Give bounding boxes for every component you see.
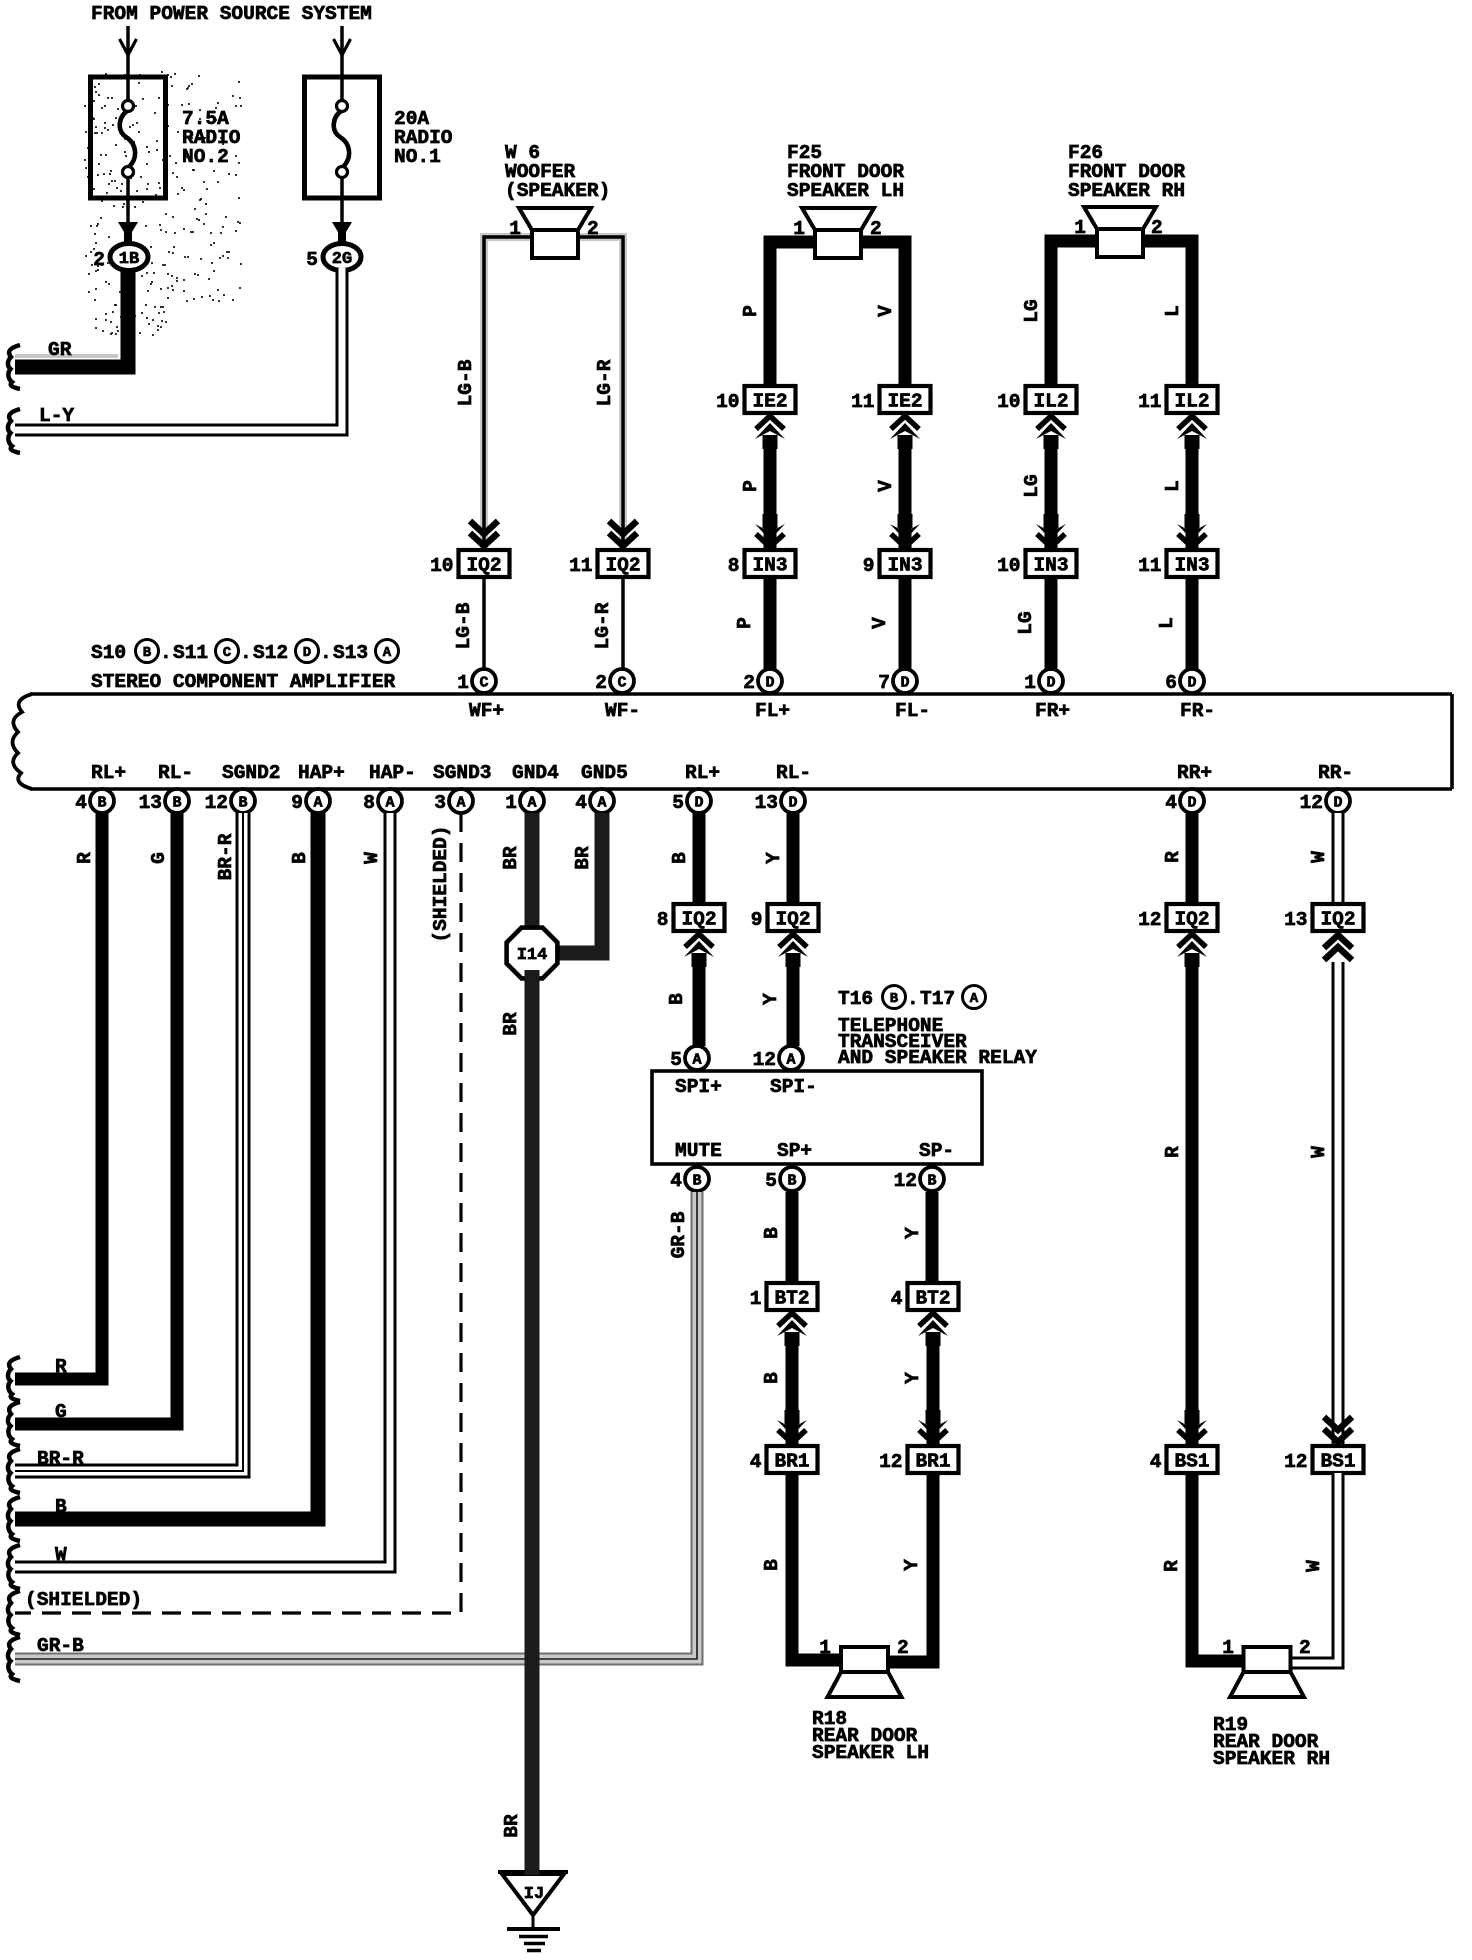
wire R from 12 IQ2 to 4 BS1 [1162,956,1192,1444]
arrow out of 10 IE2 [755,416,785,449]
svg-text:P: P [740,305,762,317]
connector 10 IN3 [997,550,1076,577]
svg-text:4: 4 [1150,1451,1162,1473]
pin 5(B) SP+ [765,1140,812,1192]
svg-text:5: 5 [670,1049,682,1071]
svg-text:SP-: SP- [919,1140,954,1162]
pin 4(B) RL+ [75,762,126,814]
connector 9 IQ2 [751,904,819,931]
svg-text:D: D [694,795,703,812]
svg-text:10: 10 [716,391,739,413]
svg-text:FL-: FL- [895,700,930,722]
wire LG-B to amp WF+ [453,577,484,670]
svg-text:IQ2: IQ2 [466,555,501,577]
svg-text:2: 2 [870,218,882,240]
svg-text:12: 12 [879,1451,902,1473]
arrow out of 1 BT2 [777,1313,807,1346]
svg-text:4: 4 [75,792,87,814]
svg-text:IN3: IN3 [1174,555,1209,577]
svg-text:RL+: RL+ [91,762,126,784]
fuse 20A RADIO NO.1 [305,26,453,245]
pin 12(D) RR- [1300,762,1354,814]
connector 8 IQ2 [657,904,725,931]
stereo component amplifier box [13,694,1453,789]
svg-text:2: 2 [1151,217,1163,239]
svg-text:2G: 2G [332,250,352,269]
svg-text:D: D [765,675,774,692]
svg-text:S10: S10 [91,642,126,664]
svg-text:BT2: BT2 [915,1288,950,1310]
svg-text:LG-B: LG-B [453,602,475,649]
svg-text:G: G [55,1401,67,1423]
svg-text:BR-R: BR-R [37,1448,84,1470]
svg-text:SPEAKER RH: SPEAKER RH [1213,1748,1330,1770]
arrow into 9 IN3 [890,514,920,547]
pin 1(A) GND4 [505,762,559,814]
label W 6 WOOFER (SPEAKER) [505,142,610,202]
svg-text:IQ2: IQ2 [1320,909,1355,931]
svg-text:BR: BR [500,1012,522,1036]
svg-text:11: 11 [1138,555,1161,577]
wire B from 4 BR1 to R18 pin1 [761,1473,848,1660]
pin 2(D) FL+ [743,669,790,722]
wire B from 1 BT2 to 4 BR1 [761,1335,792,1444]
svg-text:V: V [875,480,897,492]
svg-text:IN3: IN3 [1033,555,1068,577]
svg-text:8: 8 [657,909,669,931]
arrow out of 13 IQ2 [1324,935,1352,960]
svg-text:D: D [1187,795,1196,812]
arrow into 10 IQ2 [470,521,498,546]
svg-text:4: 4 [750,1451,762,1473]
label T16(B),T17(A) [838,986,986,1011]
svg-text:C: C [479,675,488,692]
connector 4 BR1 [750,1446,818,1473]
svg-text:B: B [761,1559,783,1571]
connector 11 IN3 [1138,550,1217,577]
svg-text:GR: GR [48,339,72,361]
svg-text:WF-: WF- [605,700,640,722]
svg-text:B: B [172,795,181,812]
wire BR from splice I14 to ground [500,970,532,1875]
svg-text:1B: 1B [119,250,139,269]
svg-text:1: 1 [1024,672,1036,694]
wire R from 4(D) to 12 IQ2 [1162,813,1192,904]
svg-text:A: A [692,1052,701,1069]
pin 12(B) SP- [894,1140,955,1192]
connector 12 IQ2 [1138,904,1217,931]
pin 12(B) SGND2 [205,762,281,814]
svg-text:RL+: RL+ [685,762,720,784]
svg-text:IJ: IJ [524,1885,544,1904]
arrow into 11 IN3 [1177,514,1207,547]
connector 8 IN3 [728,550,796,577]
wire Y from 12 BR1 to R18 pin2 [882,1473,933,1662]
svg-text:IL2: IL2 [1174,391,1209,413]
wire B from SP+ to 1 BT2 [761,1192,792,1283]
svg-text:13: 13 [755,792,778,814]
wire B from HAP+ to left edge [15,813,318,1519]
svg-text:W: W [55,1544,67,1566]
svg-text:1: 1 [1074,217,1086,239]
svg-text:6: 6 [1165,672,1177,694]
arrow into 12 BS1 [1324,1417,1352,1442]
svg-text:SGND3: SGND3 [433,762,492,784]
svg-text:RR-: RR- [1318,762,1353,784]
wire Y from SP- to 4 BT2 [902,1192,932,1283]
svg-text:WF+: WF+ [469,700,504,722]
svg-text:12: 12 [205,792,228,814]
wire Y from 9 IQ2 to 12(A) [760,956,793,1046]
connector 12 BR1 [879,1446,958,1473]
wire GR-B from MUTE to left edge [15,1192,697,1659]
svg-text:L: L [1156,617,1178,629]
svg-text:A: A [456,795,465,812]
svg-text:1: 1 [793,218,805,240]
speaker symbol R19 [1222,1637,1310,1697]
svg-text:AND SPEAKER RELAY: AND SPEAKER RELAY [838,1047,1037,1069]
continuation bracket GR [8,345,20,389]
svg-text:B: B [761,1227,783,1239]
svg-text:B: B [927,1173,936,1190]
svg-text:B: B [692,1173,701,1190]
arrow out of 4 BT2 [918,1313,948,1346]
svg-text:HAP+: HAP+ [298,762,345,784]
stipple shading around fuse RADIO NO.2 [84,71,242,336]
svg-text:D: D [788,795,797,812]
svg-text:12: 12 [1300,792,1323,814]
svg-text:B: B [143,645,152,661]
svg-text:LG: LG [1015,611,1037,634]
svg-text:P: P [740,480,762,492]
svg-text:IQ2: IQ2 [775,909,810,931]
svg-text:9: 9 [863,555,875,577]
svg-text:IE2: IE2 [752,391,787,413]
svg-text:LG-R: LG-R [592,602,614,649]
continuation bracket BR-R [8,1449,20,1493]
wire B from 8 IQ2 to 5(A) [666,956,699,1046]
ground IJ [498,1872,568,1951]
svg-text:9: 9 [751,909,763,931]
svg-text:.: . [907,988,919,1010]
pin 1(D) FR+ [1024,669,1070,722]
svg-text:SPI-: SPI- [770,1076,817,1098]
svg-text:IN3: IN3 [752,555,787,577]
connector 4 BT2 [891,1283,959,1310]
pin 8(A) HAP- [363,762,416,814]
title FROM POWER SOURCE SYSTEM [91,3,372,25]
svg-text:T17: T17 [920,988,955,1010]
svg-text:LG-B: LG-B [455,359,477,406]
svg-text:7: 7 [878,672,890,694]
svg-text:.: . [160,642,172,664]
wire LG-B woofer pin1 (thin) [455,237,534,548]
svg-text:R: R [1162,851,1184,863]
svg-text:D: D [1187,675,1196,692]
svg-text:L-Y: L-Y [39,405,74,427]
speaker symbol F25 [793,208,881,258]
pin 4(D) RR+ [1165,762,1212,814]
svg-text:SPEAKER LH: SPEAKER LH [812,1742,929,1764]
svg-text:R: R [1161,1560,1183,1572]
svg-text:11: 11 [569,555,592,577]
speaker symbol R18 [819,1637,908,1697]
svg-text:S11: S11 [173,642,208,664]
svg-text:C: C [617,675,626,692]
svg-text:NO.2: NO.2 [182,146,229,168]
svg-text:.: . [320,642,332,664]
svg-text:BR: BR [500,846,522,870]
wire LG-R woofer pin2 (thin) [576,237,623,548]
svg-text:W: W [1308,851,1330,863]
arrow into 4 BS1 [1177,1410,1207,1443]
wire LG between IL2 and IN3 [1021,438,1051,548]
svg-text:IQ2: IQ2 [605,555,640,577]
svg-text:FR+: FR+ [1035,700,1070,722]
continuation bracket G [8,1402,20,1446]
wire LG speaker pin1 [1021,241,1102,412]
svg-text:2: 2 [595,672,607,694]
svg-text:BS1: BS1 [1320,1451,1355,1473]
svg-text:T16: T16 [838,988,873,1010]
svg-text:SP+: SP+ [777,1140,812,1162]
svg-text:12: 12 [1284,1451,1307,1473]
svg-text:D: D [1333,795,1342,812]
svg-text:1: 1 [505,792,517,814]
connector 11 IL2 [1138,386,1217,413]
svg-text:(SHIELDED): (SHIELDED) [25,1589,142,1611]
svg-text:STEREO COMPONENT AMPLIFIER: STEREO COMPONENT AMPLIFIER [91,671,396,693]
svg-text:1: 1 [819,1637,831,1659]
pin 12(A) SPI- [753,1046,817,1098]
svg-text:4: 4 [670,1170,682,1192]
svg-text:4: 4 [1165,792,1177,814]
svg-text:3: 3 [434,792,446,814]
arrow into 12 BR1 [918,1410,948,1443]
connector 11 IE2 [851,386,930,413]
continuation bracket R [8,1357,20,1401]
splice I14 [507,928,558,979]
svg-text:9: 9 [291,792,303,814]
wire L speaker pin2 [1138,241,1192,412]
svg-text:5: 5 [765,1170,777,1192]
svg-text:1: 1 [1222,1637,1234,1659]
svg-text:D: D [1046,675,1055,692]
svg-text:C: C [223,645,232,661]
svg-text:S13: S13 [333,642,368,664]
svg-text:IL2: IL2 [1033,391,1068,413]
svg-text:8: 8 [363,792,375,814]
svg-text:W: W [1303,1560,1325,1572]
svg-text:BR1: BR1 [915,1451,950,1473]
svg-text:2: 2 [1299,1637,1311,1659]
svg-text:10: 10 [430,555,453,577]
svg-text:2: 2 [93,249,105,271]
svg-text:RL-: RL- [158,762,193,784]
connector 1 BT2 [750,1283,818,1310]
svg-text:SPEAKER LH: SPEAKER LH [787,180,904,202]
svg-text:W: W [361,852,383,864]
svg-text:IE2: IE2 [887,391,922,413]
connector 9 IN3 [863,550,931,577]
svg-text:B: B [289,852,311,864]
svg-text:D: D [900,675,909,692]
continuation bracket W [8,1545,20,1589]
svg-text:A: A [313,795,322,812]
label R18 REAR DOOR SPEAKER LH [812,1708,929,1764]
wire V speaker pin2 [856,242,905,412]
svg-text:Y: Y [763,852,785,864]
wire L between IL2 and IN3 [1162,438,1192,548]
svg-text:Y: Y [902,1372,924,1384]
svg-text:11: 11 [1138,391,1161,413]
svg-text:4: 4 [575,792,587,814]
svg-text:RL-: RL- [776,762,811,784]
svg-text:B: B [787,1173,796,1190]
svg-text:4: 4 [891,1288,903,1310]
connector 11 IQ2 [569,550,648,577]
svg-text:A: A [527,795,536,812]
svg-text:5: 5 [672,792,684,814]
svg-text:Y: Y [760,993,782,1005]
svg-text:B: B [761,1372,783,1384]
svg-text:1: 1 [457,672,469,694]
connector 10 IL2 [997,386,1076,413]
connector 5(2G) [306,244,361,272]
label F26 FRONT DOOR SPEAKER RH [1068,142,1185,202]
svg-text:BR: BR [572,846,594,870]
svg-text:FR-: FR- [1180,700,1215,722]
svg-text:.: . [240,642,252,664]
arrow out of 11 IL2 [1177,416,1207,449]
svg-text:BR1: BR1 [774,1451,809,1473]
svg-text:B: B [55,1496,67,1518]
label R19 REAR DOOR SPEAKER RH [1213,1714,1330,1770]
arrow out of 12 IQ2 [1177,934,1207,967]
svg-text:A: A [383,645,392,661]
wire V to amp FL- [869,577,905,670]
svg-text:1: 1 [509,218,521,240]
wire L to amp FR- [1156,577,1192,670]
wire LG-R to amp WF- [592,577,623,670]
svg-text:RR+: RR+ [1177,762,1212,784]
svg-text:LG: LG [1021,299,1043,322]
svg-text:V: V [875,305,897,317]
speaker symbol F26 [1074,207,1162,257]
pin 9(A) HAP+ [291,762,345,814]
fuse 7.5A RADIO NO.2 [91,26,241,245]
pin 5(A) SPI+ [670,1046,722,1098]
svg-text:S12: S12 [253,642,288,664]
svg-text:L: L [1162,480,1184,492]
wire W from 12(D) to 13 IQ2 [1308,813,1338,904]
connector 4 BS1 [1150,1446,1218,1473]
svg-text:L: L [1162,305,1184,317]
svg-text:BR: BR [501,1814,523,1838]
arrow out of 11 IE2 [890,416,920,449]
wire LG to amp FR+ [1015,577,1051,670]
svg-text:12: 12 [1138,909,1161,931]
wire P to amp FL+ [734,577,770,670]
wire Y from 13(D) to 9 IQ2 [763,813,793,904]
wire BR-R from SGND2 to left edge [15,813,243,1471]
svg-text:5: 5 [306,249,318,271]
svg-text:R: R [74,852,96,864]
arrow into 4 BR1 [777,1410,807,1443]
label S10(B),S11(C),S12(D),S13(A) [91,640,399,665]
pin 2(C) WF- [595,669,640,722]
svg-text:2: 2 [743,672,755,694]
pin 13(D) RL- [755,762,812,814]
svg-text:BR-R: BR-R [215,833,237,880]
connector 12 BS1 [1284,1446,1363,1473]
wire W from HAP- to left edge [15,813,390,1567]
svg-text:Y: Y [902,1227,924,1239]
svg-text:LG: LG [1021,474,1043,497]
wire BR from GND5 to splice I14 [552,813,602,953]
svg-text:2: 2 [587,218,599,240]
svg-text:R: R [1162,1146,1184,1158]
svg-text:SGND2: SGND2 [222,762,281,784]
pin 4(A) GND5 [575,762,628,814]
svg-text:LG-R: LG-R [594,359,616,406]
svg-text:HAP-: HAP- [369,762,416,784]
svg-text:I14: I14 [517,946,548,965]
wire B from 5(D) to 8 IQ2 [669,813,699,904]
wire W from 13 IQ2 to 12 BS1 [1308,962,1338,1444]
arrow into 11 IQ2 [609,521,637,546]
svg-text:A: A [970,991,979,1007]
continuation bracket B [8,1497,20,1541]
svg-text:10: 10 [997,555,1020,577]
svg-text:SPEAKER RH: SPEAKER RH [1068,180,1185,202]
svg-text:GR-B: GR-B [37,1635,84,1657]
arrow out of 10 IL2 [1036,416,1066,449]
svg-text:2: 2 [897,1637,909,1659]
svg-text:BT2: BT2 [774,1288,809,1310]
wire Y from 4 BT2 to 12 BR1 [902,1335,933,1444]
telephone transceiver and speaker relay box [652,1071,982,1164]
wire GR (thick) from 2(1B) to left edge [15,268,128,367]
svg-text:B: B [890,991,899,1007]
svg-text:10: 10 [997,391,1020,413]
svg-text:(SPEAKER): (SPEAKER) [505,180,610,202]
svg-text:11: 11 [851,391,874,413]
svg-text:FL+: FL+ [755,700,790,722]
wire W from 12 BS1 to R19 pin2 [1285,1473,1338,1663]
svg-text:B: B [238,795,247,812]
svg-text:GR-B: GR-B [668,1211,690,1258]
svg-text:(SHIELDED): (SHIELDED) [430,825,452,942]
wire P speaker pin1 [740,242,820,412]
svg-text:13: 13 [1284,909,1307,931]
svg-text:P: P [734,617,756,629]
wire V between IE2 and IN3 [875,438,905,548]
svg-text:FROM POWER SOURCE SYSTEM: FROM POWER SOURCE SYSTEM [91,3,372,25]
pin 6(D) FR- [1165,669,1215,722]
svg-text:NO.1: NO.1 [394,146,441,168]
svg-text:12: 12 [753,1049,776,1071]
svg-text:GND5: GND5 [581,762,628,784]
continuation bracket GR-B [8,1637,20,1681]
wire R from RL+ to left edge [15,813,102,1379]
arrow out of 9 IQ2 [778,934,808,967]
svg-text:IQ2: IQ2 [681,909,716,931]
wire P between IE2 and IN3 [740,438,770,548]
svg-text:B: B [669,852,691,864]
svg-text:BS1: BS1 [1174,1451,1209,1473]
svg-text:IQ2: IQ2 [1174,909,1209,931]
